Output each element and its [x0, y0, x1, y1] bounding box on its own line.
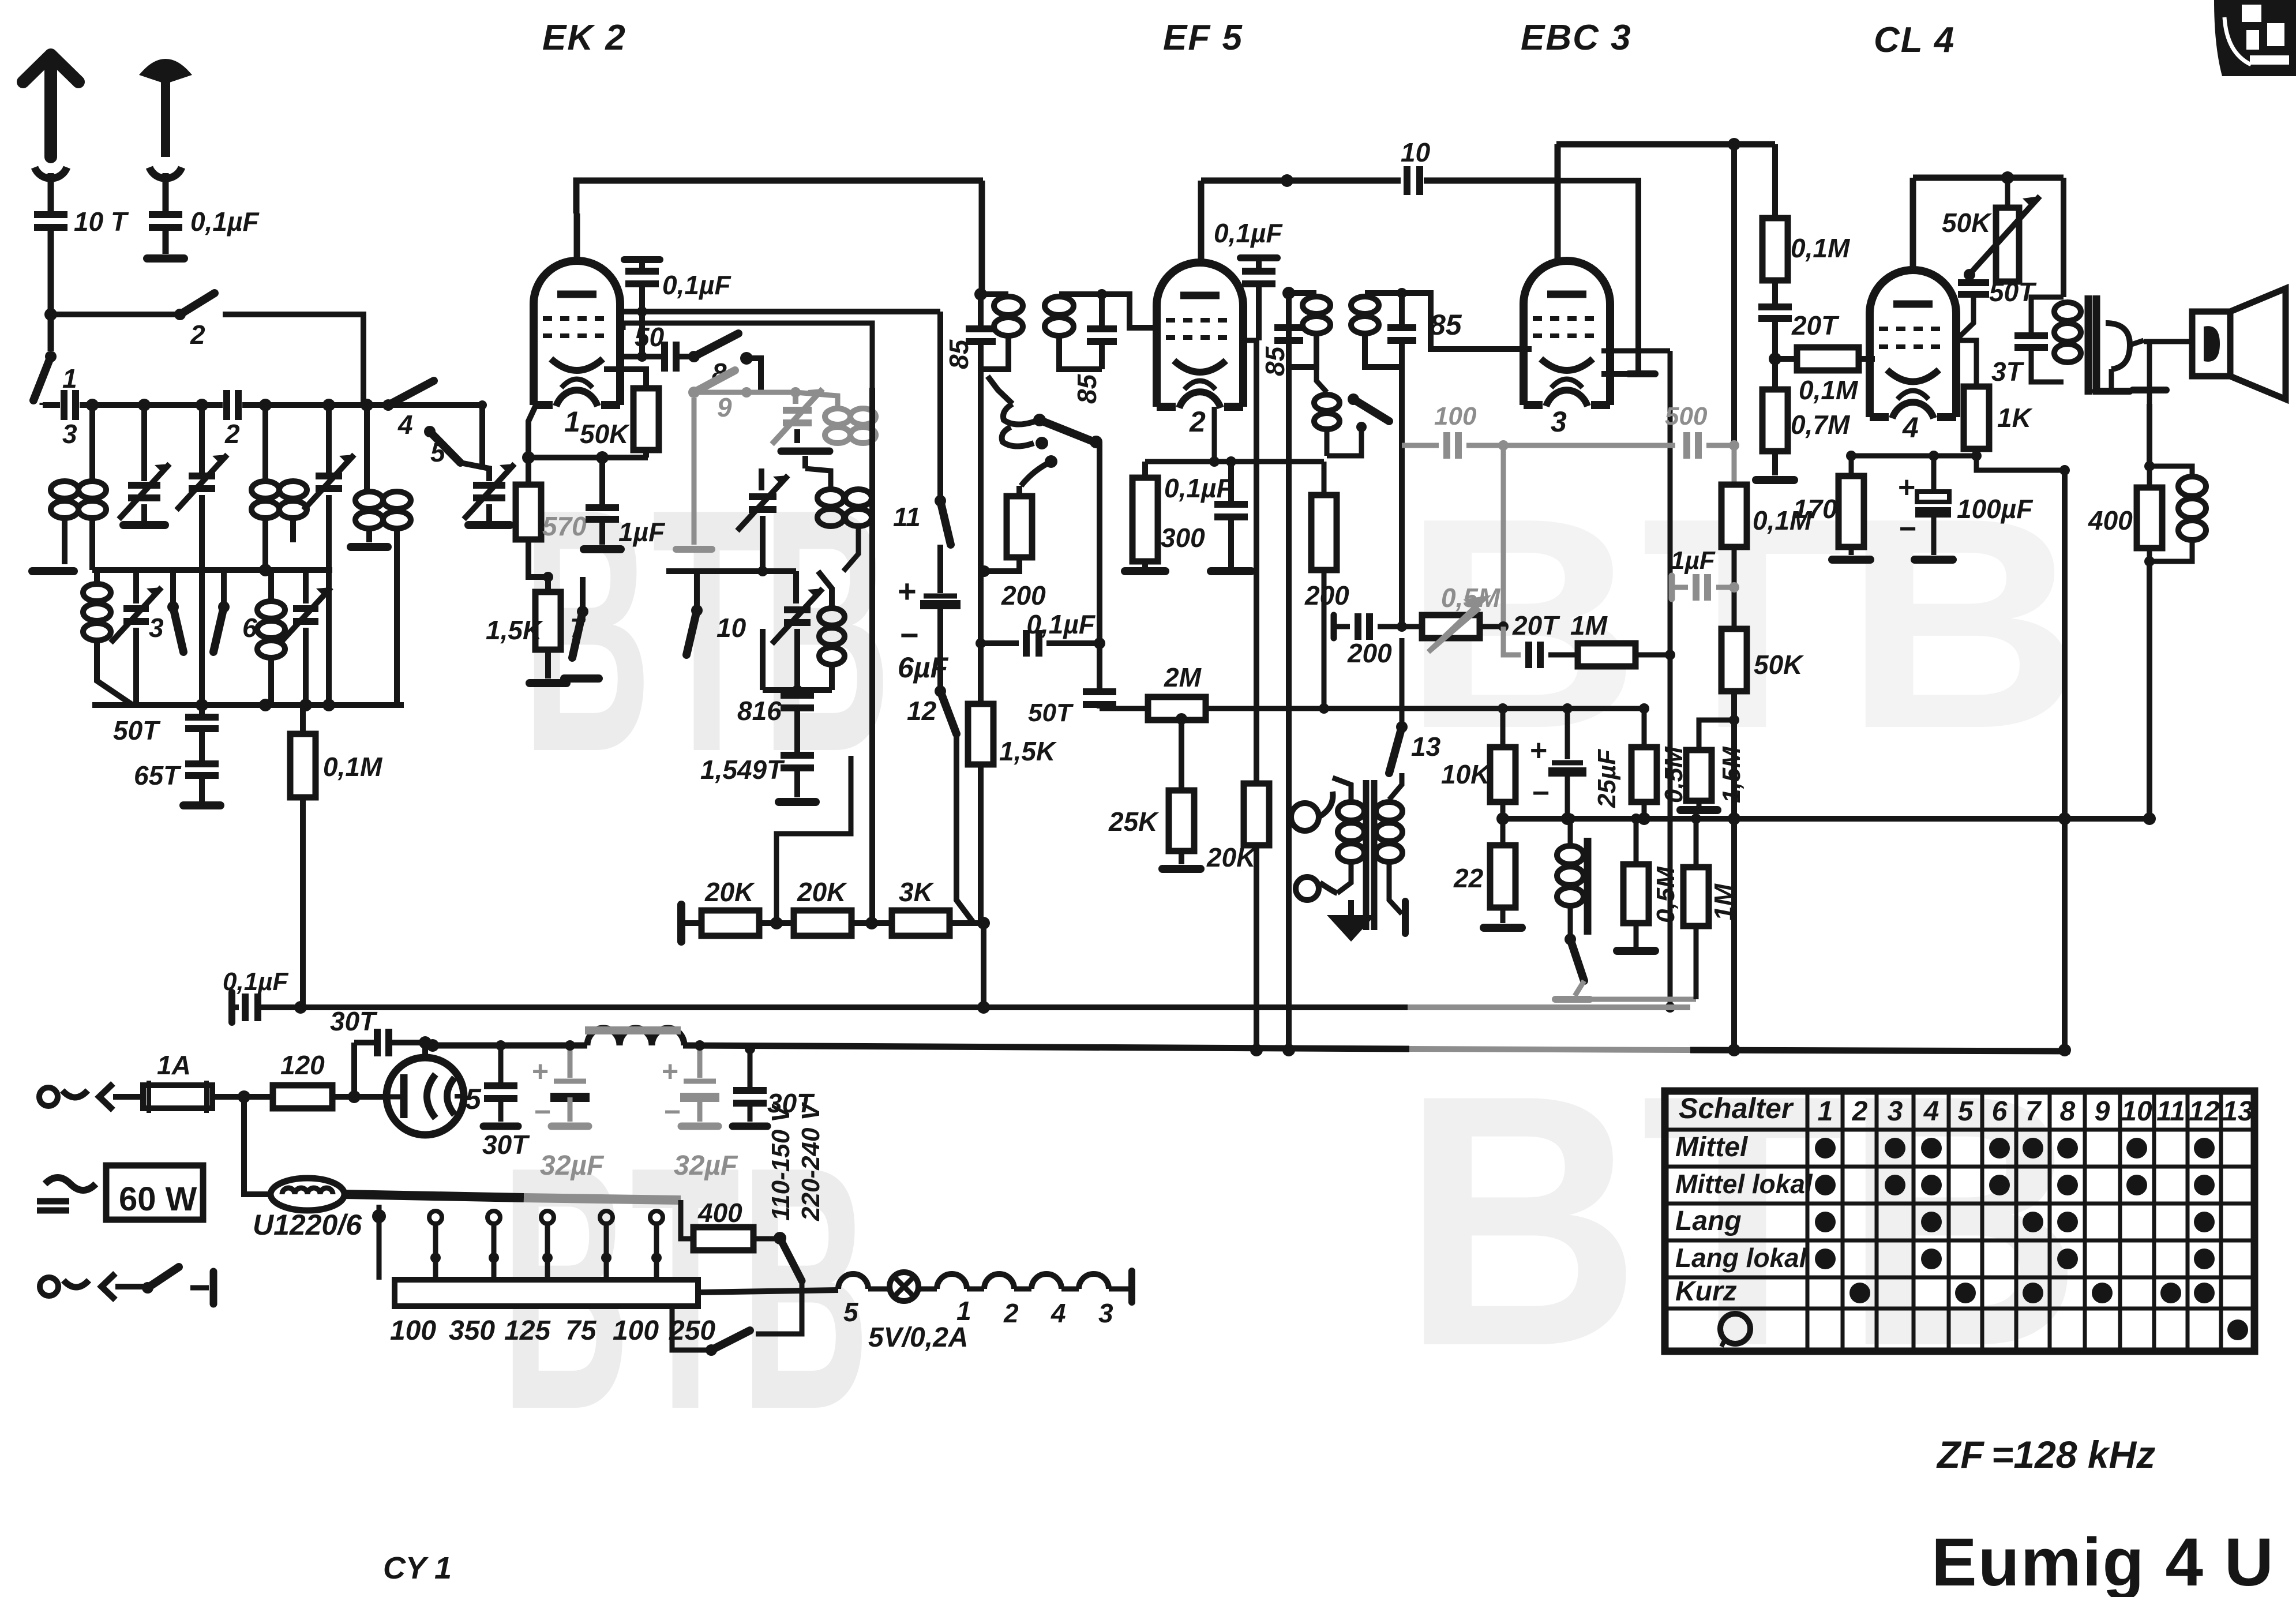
- wire oscillator grid (gray): [694, 387, 838, 406]
- wire osc padder row: [666, 566, 796, 576]
- label 100 (strip): [390, 1315, 436, 1346]
- wire EK2 screen row: [617, 309, 940, 314]
- resistor 20K (screen bleeder): [1206, 783, 1269, 1056]
- switch 8: [688, 333, 753, 388]
- wire IF1 bottom to divider line: [978, 369, 984, 704]
- svg-text:20K: 20K: [1206, 842, 1257, 872]
- IF transformer 1 secondary capacitor 85: [1087, 294, 1117, 369]
- svg-text:6µF: 6µF: [898, 651, 949, 684]
- heater winding 2: [967, 1274, 1019, 1328]
- svg-text:30T: 30T: [482, 1130, 530, 1160]
- ground below switch 9 (gray): [676, 546, 712, 553]
- resistor 0.1M (AVC chain): [1721, 485, 1813, 547]
- wire antenna to switch 2: [51, 312, 177, 317]
- wire to speaker: [2144, 339, 2192, 344]
- mains terminal (lower): [40, 1273, 145, 1300]
- capacitor 3T: [1991, 297, 2064, 387]
- wire EBC3 anode top bus: [1556, 138, 1775, 151]
- label 85 (IF2): [1430, 309, 1462, 341]
- electrolytic 32uF (first, gray): [532, 1040, 605, 1181]
- svg-text:−: −: [900, 617, 919, 653]
- rectifier tube CY1: [387, 1036, 464, 1135]
- svg-text:1K: 1K: [1997, 403, 2033, 433]
- label EF5: [1163, 18, 1243, 58]
- resistor 22: [1453, 819, 1522, 928]
- wire mains to barretter: [244, 1097, 271, 1194]
- wire HT vertical (screen line): [1729, 144, 1739, 451]
- svg-text:Lang lokal: Lang lokal: [1675, 1243, 1807, 1273]
- tube CL4: [1870, 270, 1956, 418]
- svg-text:20K: 20K: [704, 877, 755, 907]
- wire gray ground link: [1573, 997, 1696, 1002]
- svg-text:300: 300: [1161, 523, 1205, 553]
- resistor 10K: [1441, 708, 1515, 825]
- label EBC3: [1521, 18, 1632, 58]
- switch 13: [1389, 638, 1441, 773]
- svg-text:U1220/6: U1220/6: [253, 1209, 362, 1241]
- svg-text:1: 1: [564, 406, 580, 438]
- row label Mittel: [1675, 1132, 1749, 1163]
- resistor 1.5K: [486, 539, 567, 683]
- wire HT bus right segment: [1690, 1050, 2070, 1051]
- wire EK2 g4 row: [623, 323, 872, 389]
- IF transformer 1 primary capacitor 85: [966, 288, 996, 369]
- wire divider node 2: [851, 917, 892, 929]
- svg-text:ZF =128 kHz: ZF =128 kHz: [1936, 1433, 2155, 1476]
- wire IF2 to EBC3 grid: [1397, 288, 1532, 349]
- tube EK2: [534, 261, 620, 406]
- label 125 (strip): [504, 1315, 551, 1346]
- svg-text:−: −: [1899, 512, 1916, 546]
- wire switch 2 to band filter: [223, 314, 363, 405]
- svg-text:3: 3: [1098, 1298, 1113, 1328]
- voltage selector tap 1: [372, 1205, 386, 1280]
- wire chassis bus gray segment: [1408, 1004, 1690, 1010]
- svg-text:+: +: [1898, 471, 1915, 504]
- dial lamp 5V 0.2A: [868, 1272, 968, 1353]
- svg-text:10K: 10K: [1441, 759, 1491, 789]
- svg-text:0,5M: 0,5M: [1441, 583, 1501, 613]
- wire divider to oscillator: [776, 756, 851, 923]
- wire EBC3 grid right: [1601, 351, 1670, 655]
- svg-text:12: 12: [907, 696, 937, 726]
- wire oscillator vertical line: [869, 388, 875, 923]
- chassis ground arrow (AF transformer): [1327, 900, 1375, 942]
- svg-text:20T: 20T: [1512, 610, 1560, 640]
- label 85 left (IF1): [944, 339, 974, 369]
- oscillator coil primary (gray): [825, 408, 876, 443]
- resistor 0.7M (grid leak): [1756, 389, 1851, 480]
- label ZF = 128 kHz: [1936, 1433, 2155, 1476]
- svg-text:CY 1: CY 1: [383, 1551, 452, 1585]
- capacitor 200 (series to pot): [1333, 613, 1407, 668]
- resistor 1M (grid coupling): [1570, 610, 1675, 666]
- trimmer capacitor osc (gray): [772, 389, 823, 444]
- svg-text:10: 10: [2121, 1096, 2152, 1127]
- svg-text:25µF: 25µF: [1593, 749, 1621, 808]
- svg-text:1,549T: 1,549T: [700, 755, 785, 785]
- wire switch 6 stem: [221, 570, 227, 607]
- coil L4 (longwave): [83, 570, 133, 705]
- electrolytic 32uF (second, gray): [662, 1040, 738, 1181]
- wire lower filter row top: [92, 564, 332, 576]
- resistor 200 (EF5 cathode bias): [978, 486, 1046, 610]
- capacitor 0.1uF (EK2 osc grid): [624, 260, 731, 357]
- svg-text:Eumig 4 U: Eumig 4 U: [1931, 1524, 2275, 1597]
- svg-text:85: 85: [1430, 309, 1462, 341]
- svg-text:30T: 30T: [330, 1006, 378, 1036]
- svg-text:20T: 20T: [1791, 310, 1840, 340]
- svg-text:Mittel lokal: Mittel lokal: [1675, 1169, 1813, 1199]
- switch 5: [424, 426, 489, 481]
- switch (strip shorting): [672, 1292, 802, 1356]
- resistor 0.1M (CL4 grid stopper): [1775, 347, 1875, 405]
- svg-text:3: 3: [1888, 1096, 1903, 1127]
- label CL4: [1874, 20, 1955, 60]
- switch table header row: [1679, 1092, 2253, 1127]
- wire switch 3 stem: [170, 570, 176, 607]
- svg-text:12: 12: [2189, 1096, 2220, 1127]
- svg-text:200: 200: [1304, 580, 1349, 610]
- svg-text:5: 5: [430, 437, 446, 467]
- terminal bar start of divider: [677, 905, 685, 942]
- output transformer secondary: [2095, 323, 2144, 391]
- svg-text:1: 1: [956, 1296, 971, 1326]
- svg-text:32µF: 32µF: [674, 1150, 738, 1181]
- svg-text:1: 1: [1818, 1096, 1833, 1127]
- wire HT bus gray segment: [1409, 1049, 1690, 1050]
- heater winding 3: [1061, 1274, 1113, 1328]
- svg-text:3T: 3T: [1991, 357, 2025, 387]
- svg-text:100µF: 100µF: [1957, 494, 2034, 524]
- resistor 2M (AVC): [1100, 662, 1644, 720]
- svg-text:50T: 50T: [113, 715, 161, 745]
- wire HT bus (B+): [426, 1039, 1409, 1052]
- svg-text:Mittel: Mittel: [1675, 1132, 1749, 1163]
- label 220-240V: [797, 1101, 825, 1221]
- capacitor 0.1uF (chassis end): [223, 968, 289, 1022]
- svg-text:1,5K: 1,5K: [486, 615, 543, 645]
- svg-text:0,7M: 0,7M: [1791, 410, 1851, 440]
- svg-text:4: 4: [1051, 1298, 1066, 1328]
- wire screen junction: [2058, 465, 2071, 1056]
- svg-text:2: 2: [1003, 1298, 1019, 1328]
- junction dots on band filter bus: [86, 399, 487, 411]
- wire 1.5M branch: [1699, 715, 1739, 750]
- svg-text:1A: 1A: [157, 1050, 191, 1080]
- capacitor 65T: [134, 729, 219, 802]
- title Eumig 4 U: [1931, 1524, 2275, 1597]
- svg-text:9: 9: [2095, 1096, 2110, 1127]
- wire oscillator HT line: [937, 312, 943, 501]
- svg-text:3K: 3K: [899, 877, 935, 907]
- row label Lang: [1675, 1206, 1742, 1236]
- svg-text:3: 3: [1551, 406, 1567, 438]
- svg-text:0,1µF: 0,1µF: [190, 207, 260, 237]
- wire IF2 HT feed: [1282, 293, 1295, 1056]
- svg-text:0,5M: 0,5M: [1652, 866, 1680, 923]
- switch 2: [174, 293, 215, 350]
- svg-text:120: 120: [280, 1050, 325, 1080]
- svg-text:10: 10: [1401, 137, 1431, 167]
- label 250 (strip): [669, 1315, 715, 1346]
- capacitor 50 (series): [617, 322, 691, 372]
- capacitor 1549T: [700, 741, 816, 802]
- label 100b (strip): [613, 1315, 659, 1346]
- resistor 0.1M (AVC feed): [290, 705, 383, 1007]
- filter choke: [585, 1028, 684, 1045]
- barretter U1220/6: [253, 1178, 362, 1241]
- capacitor 20T (coupling): [1758, 280, 1840, 389]
- potentiometer 50K (tone): [1942, 178, 2040, 282]
- capacitor 816: [737, 690, 814, 741]
- heater winding 1: [937, 1274, 971, 1326]
- wire 3K to HT node: [950, 917, 990, 929]
- resistor 20K (second): [794, 877, 851, 936]
- svg-text:CL 4: CL 4: [1874, 20, 1955, 60]
- svg-text:200: 200: [1001, 580, 1046, 610]
- svg-text:10: 10: [716, 613, 746, 643]
- label 350 (strip): [449, 1315, 495, 1346]
- wire gray AVC drop: [1501, 445, 1506, 627]
- capacitor 0.1uF (antenna 2): [149, 207, 260, 254]
- svg-text:350: 350: [449, 1315, 495, 1346]
- resistor 200 (EF5 screen feed): [1304, 495, 1349, 708]
- tube EBC3: [1524, 261, 1610, 406]
- resistor 1.5M: [1680, 746, 1746, 810]
- antenna 1 symbol: [23, 55, 78, 212]
- switch 4: [382, 381, 434, 440]
- svg-text:200: 200: [1347, 638, 1392, 668]
- svg-text:1: 1: [62, 363, 77, 393]
- electrolytic 25uF: [1530, 708, 1621, 825]
- svg-text:400: 400: [697, 1198, 742, 1228]
- switch table dots: [1815, 1138, 2248, 1340]
- wire top bus of band filter: [43, 402, 482, 408]
- svg-text:0,1µF: 0,1µF: [223, 968, 289, 996]
- wire IF1 secondary return: [1097, 442, 1102, 690]
- svg-text:5: 5: [1958, 1096, 1974, 1127]
- resistor 25K: [1108, 713, 1200, 869]
- svg-text:2: 2: [1189, 406, 1206, 438]
- svg-text:5: 5: [843, 1297, 859, 1327]
- switch 6: [213, 601, 257, 652]
- trimmer capacitor C-a: [119, 405, 170, 525]
- wire switch 9 down (gray): [692, 398, 697, 545]
- svg-text:13: 13: [2222, 1096, 2253, 1127]
- svg-text:13: 13: [1411, 732, 1441, 762]
- wire lower filter bus: [92, 699, 404, 711]
- wire fuse to 120: [212, 1090, 273, 1103]
- wire EBC3 grid leak to bus: [1665, 655, 1675, 1013]
- label 0.1uF cathode cap: [1164, 473, 1233, 503]
- fuse 1A: [143, 1050, 212, 1113]
- tube EF5: [1157, 263, 1243, 408]
- oscillator coil secondary: [805, 468, 872, 571]
- node A (antenna junction): [44, 308, 57, 321]
- resistor 0.5M (lower): [1617, 814, 1680, 951]
- electrolytic 100uF: [1898, 456, 2034, 560]
- resistor 50K (back bias divider): [1721, 629, 1804, 1056]
- svg-text:220-240 V: 220-240 V: [797, 1101, 825, 1221]
- label tube EK2 pin 1: [564, 406, 580, 438]
- svg-text:3: 3: [62, 419, 77, 449]
- wire EK2 cathode row: [522, 451, 648, 464]
- voltage selector tap 3: [487, 1211, 500, 1299]
- capacitor 30T (rectifier top): [330, 1006, 425, 1097]
- svg-text:−: −: [534, 1096, 551, 1128]
- capacitor 30T (rectifier output): [482, 1040, 530, 1160]
- svg-text:3: 3: [149, 613, 164, 643]
- wire divider node 1: [759, 917, 794, 929]
- label 85 right (IF1): [1072, 373, 1102, 404]
- wire EF5 cathode: [1145, 407, 1324, 467]
- capacitor 500 (gray): [1665, 402, 1734, 459]
- heater winding 5: [838, 1274, 868, 1327]
- wire CL4 cathode: [1956, 340, 1976, 387]
- svg-text:4: 4: [1902, 411, 1919, 444]
- svg-text:6: 6: [1992, 1096, 2008, 1127]
- row label Mittel lokal: [1675, 1169, 1813, 1199]
- loudspeaker: [2192, 288, 2286, 399]
- wire IF2 diode line: [1399, 367, 1405, 627]
- svg-text:0,1µF: 0,1µF: [662, 270, 731, 300]
- label tube CL4 pin 4: [1902, 411, 1919, 444]
- capacitor 50T: [113, 705, 219, 745]
- coil L5: [257, 570, 285, 705]
- trimmer capacitor osc tank: [737, 468, 788, 571]
- coil L3 (coupling): [351, 405, 411, 705]
- resistor 570: [516, 458, 587, 541]
- capacitor 10T (antenna 1 series): [34, 207, 129, 314]
- svg-text:1,5M: 1,5M: [1717, 746, 1746, 803]
- label 110-150V: [767, 1104, 795, 1221]
- svg-text:0,1µF: 0,1µF: [1214, 218, 1283, 248]
- wire EBC3 anode riser: [1555, 144, 1561, 261]
- svg-text:5V/0,2A: 5V/0,2A: [868, 1322, 968, 1353]
- svg-text:10 T: 10 T: [74, 207, 129, 237]
- resistor 20K (first): [681, 877, 759, 936]
- ground near speaker: [2133, 342, 2166, 404]
- resistor 0.1M (EBC3 anode load): [1762, 144, 1851, 280]
- switch (choke to ground): [1565, 934, 1584, 996]
- wire 120 to rectifier: [332, 1090, 389, 1103]
- capacitor 3 (series): [60, 390, 80, 449]
- svg-text:1M: 1M: [1570, 610, 1608, 640]
- row label Kurz: [1675, 1276, 1737, 1307]
- wire output transformer feed: [2061, 178, 2066, 297]
- label tube EBC3 pin 3: [1551, 406, 1567, 438]
- wire IF1 to EF5 grid: [1097, 289, 1161, 328]
- IF1 secondary damping coil and switch: [988, 376, 1102, 486]
- switch 11: [893, 495, 951, 545]
- voltage selector tap 6: [650, 1211, 663, 1299]
- label CY 1: [383, 1551, 452, 1585]
- svg-text:570: 570: [542, 511, 587, 541]
- trimmer capacitor C-f: [280, 570, 331, 705]
- AF transformer (pickup): [1333, 772, 1412, 934]
- capacitor 0.1uF (AVC decoupling): [976, 609, 1105, 657]
- resistor 120 (surge): [273, 1050, 332, 1108]
- ground below antenna coil: [32, 567, 74, 575]
- wire detector bus: [1503, 816, 2149, 822]
- svg-text:+: +: [662, 1055, 678, 1088]
- switch 7: [543, 572, 599, 678]
- wire gray vertical segment: [1732, 445, 1737, 485]
- capacitor EF5 cathode bypass: [1211, 462, 1251, 571]
- svg-text:Lang: Lang: [1675, 1206, 1742, 1236]
- switch table grid: [1665, 1091, 2254, 1351]
- resistor 0.5M (diode load upper): [1631, 703, 1688, 825]
- svg-text:EBC 3: EBC 3: [1521, 18, 1632, 58]
- capacitor 30T (HT filter): [733, 1044, 815, 1126]
- wire pot slider (gray): [1503, 627, 1521, 655]
- capacitor 2 (series): [223, 390, 242, 449]
- wire switch 12 down: [956, 734, 984, 923]
- wire chassis bus (upper): [258, 1001, 1409, 1014]
- resistor 1M (to back bias): [1683, 814, 1739, 999]
- voltage selector switch: [774, 1232, 802, 1290]
- resistor 1.5K (EK2 HT dropper): [968, 704, 1057, 766]
- capacitor 50T (tone): [1956, 275, 2037, 340]
- resistor 1K: [1964, 387, 2065, 470]
- svg-text:11: 11: [2156, 1096, 2185, 1127]
- label 85 (IF2 side): [1260, 346, 1290, 376]
- capacitor 20T: [1512, 610, 1578, 668]
- BTB logo (top right corner): [2214, 0, 2296, 76]
- mains switch: [142, 1267, 213, 1304]
- switch 3: [167, 601, 183, 652]
- svg-text:0,1M: 0,1M: [323, 752, 383, 782]
- svg-text:0,1µF: 0,1µF: [1026, 609, 1096, 639]
- resistor 170: [1793, 456, 1870, 560]
- potentiometer 0.5M (volume): [1402, 583, 1509, 652]
- power box 60W: [37, 1165, 203, 1220]
- svg-text:25K: 25K: [1108, 807, 1159, 837]
- label tube EF5 pin 2: [1189, 406, 1206, 438]
- wire top bus corner to IF1: [979, 181, 985, 294]
- wire EF5 anode bus to cap 10: [1201, 174, 1555, 187]
- svg-text:7: 7: [570, 613, 586, 643]
- svg-text:0,1µF: 0,1µF: [1164, 473, 1233, 503]
- IF2 secondary damping switch: [1314, 369, 1389, 456]
- IF transformer 1 windings: [981, 294, 1102, 369]
- terminal bar below 65T: [183, 801, 220, 809]
- svg-text:60 W: 60 W: [119, 1180, 197, 1218]
- mains terminal (upper): [39, 1084, 143, 1110]
- trimmer capacitor C-c: [303, 405, 354, 705]
- resistor 300 (EF5 cathode): [1125, 462, 1205, 571]
- resistor 400 (mains dropper): [681, 1198, 775, 1250]
- svg-text:0,1M: 0,1M: [1799, 375, 1859, 405]
- trimmer capacitor C-e with label 3: [111, 570, 164, 705]
- IF transformer 2 primary capacitor 85: [1274, 287, 1303, 340]
- svg-text:85: 85: [1072, 373, 1102, 404]
- svg-text:2: 2: [224, 419, 240, 449]
- wire cap 10 to EBC3 grid loop: [1555, 181, 1655, 374]
- svg-text:85: 85: [1260, 346, 1290, 376]
- antenna coil L1 (two windings): [51, 405, 106, 570]
- svg-text:170: 170: [1793, 494, 1837, 524]
- switch 1: [33, 314, 77, 405]
- svg-text:5: 5: [465, 1083, 482, 1115]
- wire EF5 screen to HT: [1239, 340, 1256, 783]
- svg-text:1,5K: 1,5K: [999, 736, 1057, 766]
- svg-text:11: 11: [893, 502, 921, 532]
- voltage selector tap 4: [541, 1211, 554, 1299]
- svg-text:125: 125: [504, 1315, 551, 1346]
- resistor 3K: [892, 877, 950, 936]
